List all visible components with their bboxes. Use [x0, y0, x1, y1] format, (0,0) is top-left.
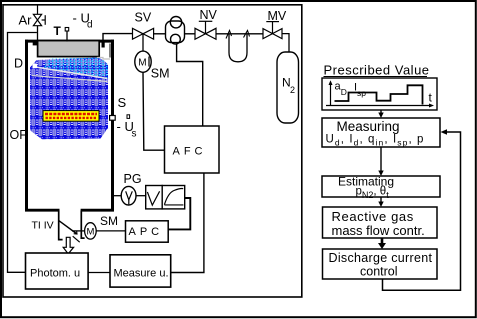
waveform step trace [335, 85, 423, 104]
filter box 2 (response curve) [162, 186, 185, 209]
substrate heater bar (yellow) [43, 111, 99, 122]
left panel enclosure box [3, 5, 302, 297]
pump rotor top [170, 17, 181, 28]
chamber throat wall right [81, 211, 84, 239]
dark space shield line right of electrode [109, 44, 111, 58]
trap hook left [226, 31, 232, 39]
chamber wall bottom right segment [81, 209, 114, 212]
valve MV (manual) [263, 22, 282, 39]
svg-text:PG: PG [124, 172, 142, 186]
plasma white notch top-left [33, 64, 37, 69]
wire: D cathode loop (left side down to Photom.u) [8, 33, 37, 273]
probe port S on right wall [110, 116, 116, 121]
wire Ar valve to chamber [37, 26, 39, 41]
wire Measure u. to AFC [171, 173, 204, 273]
gauge PG [121, 186, 136, 205]
svg-text:T: T [54, 24, 62, 38]
waveform x axis [326, 105, 432, 107]
degree mark of Us [127, 115, 130, 119]
svg-text:Prescribed Value: Prescribed Value [324, 63, 430, 78]
trap hook right [244, 31, 250, 38]
box Photom.u [26, 253, 89, 289]
wire motor M to APC [96, 230, 125, 232]
waveform y axis [330, 82, 332, 106]
box Discharge current control [323, 249, 438, 279]
electrode (gray cathode plate) [38, 41, 100, 57]
controller box AFC [165, 126, 220, 173]
gas cylinder N2 [277, 52, 299, 123]
svg-text:SV: SV [135, 10, 152, 24]
svg-text:OF: OF [10, 128, 28, 142]
shutter flap [59, 220, 77, 234]
hollow arrow to Photom [63, 237, 73, 254]
plasma region [30, 58, 108, 140]
valve Ar inlet [33, 5, 45, 26]
wire chamber top to SV [103, 34, 133, 41]
svg-text:TI IV: TI IV [32, 219, 54, 231]
wire PG gauge to filter [136, 195, 146, 197]
svg-text:S: S [118, 95, 127, 110]
svg-text:D: D [14, 56, 23, 70]
plasma gray streak lower [32, 76, 108, 82]
arrow Reactive to Discharge [381, 238, 384, 244]
box Measure u. [110, 255, 171, 287]
svg-text:AFC: AFC [173, 146, 207, 158]
controller box APC [126, 221, 169, 242]
svg-text:Ud, Id, qin, Isp, p: Ud, Id, qin, Isp, p [326, 134, 425, 148]
svg-text:Measuring: Measuring [337, 119, 400, 134]
wire filter to APC [168, 198, 190, 229]
plasma gray streak upper [33, 67, 108, 79]
wire pump to NV [185, 33, 196, 35]
arrow Measuring to Estimating [380, 147, 382, 173]
wire SV stem to motor SM [142, 34, 144, 51]
arrow waveform to Measuring [380, 110, 382, 115]
wire Photom.u to Measure u. [88, 272, 110, 274]
wire SM motor to AFC [143, 72, 165, 150]
gray step line right of electrode [97, 58, 110, 60]
box Estimating [322, 176, 440, 197]
motor M (shutter drive) [85, 223, 97, 239]
svg-text:Reactive gas: Reactive gas [332, 209, 414, 224]
setpoint waveform box [322, 78, 437, 110]
svg-text:MV: MV [268, 9, 287, 23]
valve SV [133, 28, 154, 39]
chamber wall bottom left segment [25, 209, 60, 212]
motor SM (servo on SV) [135, 51, 151, 72]
svg-text:M: M [138, 58, 146, 69]
svg-text:control: control [360, 265, 398, 279]
node Ar feedthrough on chamber top [33, 40, 38, 45]
svg-text:mass flow contr.: mass flow contr. [332, 223, 425, 238]
svg-text:APC: APC [129, 226, 164, 238]
wire chamber to PG gauge [114, 195, 121, 197]
pump (gas flow meter body) [166, 21, 185, 43]
svg-text:Ar: Ar [19, 13, 33, 28]
wire MV to N2 cylinder [282, 34, 289, 52]
chamber wall right [111, 40, 114, 211]
svg-text:2: 2 [290, 85, 295, 95]
svg-text:SM: SM [100, 214, 118, 228]
arrow Estimating to Reactive [380, 197, 382, 204]
plasma cyan speckle band [42, 58, 108, 79]
pump rotor bottom [171, 34, 181, 44]
svg-text:SM: SM [151, 66, 170, 80]
chamber wall left [25, 40, 28, 211]
svg-text:s: s [132, 129, 137, 140]
box Measuring [322, 118, 440, 147]
wire pump down to AFC [177, 44, 203, 126]
svg-text:d: d [87, 20, 93, 31]
wire NV to MV [216, 33, 263, 35]
wire flap to motor M [72, 230, 85, 232]
heater red dot rows [45, 113, 97, 116]
chamber throat wall left [59, 211, 63, 240]
svg-text:Measure u.: Measure u. [114, 268, 169, 280]
svg-text:NV: NV [200, 8, 218, 22]
shutter flap second position [73, 236, 80, 242]
wire SV to pump [154, 33, 166, 35]
cold trap U-tube [229, 34, 247, 62]
svg-text:D: D [341, 87, 347, 97]
node feedthrough top right [102, 40, 105, 48]
thermocouple pin T [66, 31, 68, 42]
svg-text:Photom. u: Photom. u [30, 268, 80, 280]
chamber wall top [25, 40, 114, 43]
svg-text:M: M [87, 226, 95, 237]
wire feedback loop [383, 132, 461, 290]
valve NV (needle) [195, 21, 216, 39]
box Reactive gas mass flow contr. [323, 207, 438, 238]
svg-text:Discharge current: Discharge current [329, 251, 433, 265]
filter box 1 (notch) [146, 186, 163, 209]
